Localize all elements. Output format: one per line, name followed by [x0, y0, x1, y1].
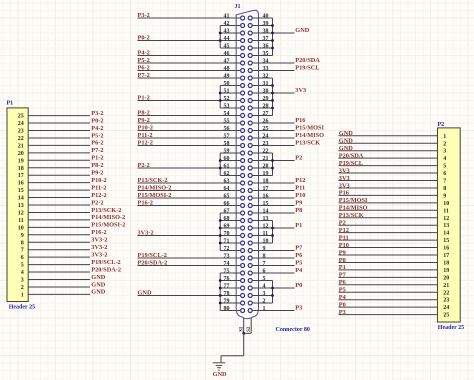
svg-text:15: 15 — [263, 201, 269, 207]
svg-text:GND: GND — [295, 27, 309, 34]
J1 pin 73 — [220, 257, 241, 259]
J1 pin 53 — [220, 107, 241, 109]
svg-text:11: 11 — [263, 231, 269, 237]
bus wire J1 pins 13-10 — [272, 221, 274, 244]
J1 pin 25 contact circle — [248, 129, 252, 133]
svg-text:6: 6 — [263, 268, 266, 274]
wire P1 pin 14 net P12-2 — [28, 197, 90, 199]
svg-text:P20/SDA-2: P20/SDA-2 — [91, 266, 121, 273]
svg-text:52: 52 — [224, 96, 230, 102]
J1 pin 43 contact circle — [241, 31, 245, 35]
wire P1 pin 12 net P13/SCK-2 — [28, 211, 90, 213]
J1 pin 74 — [220, 265, 241, 267]
junction at J1 pin 52 — [219, 99, 222, 102]
svg-text:P12: P12 — [339, 227, 349, 234]
J1 pin 78 contact circle — [241, 294, 245, 298]
wire P1 pin 1 net GND — [28, 293, 90, 295]
svg-text:J1: J1 — [235, 4, 241, 10]
svg-text:49: 49 — [224, 73, 230, 79]
junction at J1 pin 12 — [271, 227, 274, 230]
wire P2 pin 18 net P8 — [339, 261, 438, 263]
wire P1 pin 20 net P7-2 — [28, 152, 90, 154]
wire P1 pin 25 net P3-2 — [28, 115, 90, 117]
wire J1 pin 30 to net 3V3 — [273, 92, 295, 94]
svg-text:5: 5 — [263, 276, 266, 282]
svg-text:P2: P2 — [295, 155, 302, 162]
svg-text:P9-2: P9-2 — [91, 170, 103, 177]
svg-text:GND: GND — [339, 130, 353, 137]
wire J1 pin 34 to net P20/SDA — [273, 62, 295, 64]
J1 pin 47 — [220, 62, 241, 64]
svg-text:5: 5 — [443, 164, 446, 170]
wire P2 pin 24 net P0 — [339, 306, 438, 308]
svg-text:P15/MOSI-2: P15/MOSI-2 — [138, 192, 172, 199]
bus wire J1 pins 42-45 — [219, 26, 221, 49]
svg-text:3V3-2: 3V3-2 — [91, 251, 107, 258]
wire P2 pin 13 net P2 — [339, 224, 438, 226]
wire J1 pin 17 to net P11 — [273, 190, 295, 192]
J1 pin 49 — [220, 77, 241, 79]
J1 pin 19 — [252, 175, 272, 177]
J1 pin 53 contact circle — [241, 106, 245, 110]
svg-text:P14/MISO: P14/MISO — [295, 132, 324, 139]
svg-text:57: 57 — [224, 133, 230, 139]
svg-text:10: 10 — [18, 225, 24, 231]
J1 pin 66 — [220, 205, 241, 207]
junction at J1 pin 79 — [219, 302, 222, 305]
svg-text:3V3: 3V3 — [339, 175, 350, 182]
J1 pin 31 — [252, 85, 272, 87]
wire P1 pin 4 net P20/SDA-2 — [28, 271, 90, 273]
svg-text:GND: GND — [339, 138, 353, 145]
svg-text:3V3-2: 3V3-2 — [91, 244, 107, 251]
svg-text:67: 67 — [224, 208, 230, 214]
bus wire J1 pins 67-72 — [219, 213, 221, 251]
svg-text:42: 42 — [224, 21, 230, 27]
J1 pin 17 contact circle — [248, 189, 252, 193]
J1 pin 46 — [220, 55, 241, 57]
svg-text:P4-2: P4-2 — [91, 125, 103, 132]
svg-text:P13/SCK-2: P13/SCK-2 — [91, 207, 121, 214]
wire P1 pin 11 net P14/MISO-2 — [28, 219, 90, 221]
svg-text:76: 76 — [224, 276, 230, 282]
J1 pin 46 contact circle — [241, 54, 245, 58]
wire J1 pin 1 to net P3 — [273, 310, 295, 312]
wire P1 pin 8 net 3V3-2 — [28, 241, 90, 243]
svg-text:65: 65 — [224, 193, 230, 199]
svg-text:P4-2: P4-2 — [138, 50, 150, 57]
bus wire J1 pins 59-62 — [219, 153, 221, 176]
svg-text:18: 18 — [18, 166, 24, 172]
wire J1 pin 4 to net P0 — [273, 287, 295, 289]
svg-text:P5-2: P5-2 — [91, 132, 103, 139]
svg-text:P16: P16 — [339, 190, 349, 197]
J1 pin 80 contact circle — [241, 309, 245, 313]
svg-text:14: 14 — [263, 208, 269, 214]
svg-text:P11-2: P11-2 — [91, 184, 106, 191]
svg-text:P2: P2 — [438, 122, 445, 128]
svg-text:12: 12 — [443, 216, 449, 222]
svg-text:25: 25 — [18, 114, 24, 120]
J1 pin 38 — [252, 32, 272, 34]
svg-text:68: 68 — [224, 216, 230, 222]
wire P1 pin 21 net P6-2 — [28, 144, 90, 146]
wire P1 pin 9 net P16-2 — [28, 234, 90, 236]
svg-text:22: 22 — [443, 290, 449, 296]
wire J1 pin 7 to net P5 — [273, 265, 295, 267]
junction at J1 pin 29 — [271, 99, 274, 102]
J1 pin 62 contact circle — [241, 174, 245, 178]
svg-text:P8: P8 — [339, 257, 346, 264]
J1 pin 9 contact circle — [248, 249, 252, 253]
junction at J1 pin 21 — [271, 159, 274, 162]
svg-text:38: 38 — [263, 28, 269, 34]
svg-text:P19/SCL-2: P19/SCL-2 — [138, 252, 167, 259]
J1 pin 71 — [220, 242, 241, 244]
J1 pin 57 contact circle — [241, 136, 245, 140]
J1 pin 56 — [220, 130, 241, 132]
J1 pin 50 — [220, 85, 241, 87]
junction at J1 pin 30 — [271, 92, 274, 95]
J1 pin 27 — [252, 115, 272, 117]
svg-text:20: 20 — [18, 151, 24, 157]
junction at J1 pin 78 — [219, 294, 222, 297]
svg-text:P0-2: P0-2 — [91, 117, 103, 124]
svg-text:1: 1 — [21, 292, 24, 298]
svg-text:P8: P8 — [295, 207, 302, 214]
J1 pin 26 contact circle — [248, 121, 252, 125]
wire P1 pin 16 net P10-2 — [28, 182, 90, 184]
svg-text:P19/SCL: P19/SCL — [339, 160, 363, 167]
junction at J1 pin 39 — [271, 24, 274, 27]
svg-text:16: 16 — [443, 246, 449, 252]
J1 shield pin S1 — [243, 318, 245, 334]
svg-text:5: 5 — [21, 263, 24, 269]
svg-text:P1: P1 — [7, 100, 14, 106]
wire net 3V3-2 to J1 pin 70 — [138, 235, 221, 237]
svg-text:P20/SDA-2: P20/SDA-2 — [138, 260, 168, 267]
wire net P13/SCK-2 to J1 pin 63 — [138, 182, 221, 184]
wire P2 pin 25 net P3 — [339, 314, 438, 316]
svg-text:21: 21 — [263, 156, 269, 162]
wire P2 pin 21 net P6 — [339, 284, 438, 286]
wire net P2-2 to J1 pin 61 — [138, 167, 221, 169]
svg-text:P8-2: P8-2 — [138, 110, 150, 117]
svg-text:P7: P7 — [339, 272, 346, 279]
J1 pin 34 — [252, 62, 272, 64]
J1 pin 26 — [252, 122, 272, 124]
J1 pin 77 contact circle — [241, 286, 245, 290]
svg-text:8: 8 — [443, 186, 446, 192]
svg-text:P5: P5 — [295, 260, 302, 267]
svg-text:P11: P11 — [295, 185, 305, 192]
svg-text:P13/SCK: P13/SCK — [339, 212, 364, 219]
svg-text:10: 10 — [263, 238, 269, 244]
svg-text:60: 60 — [224, 156, 230, 162]
junction at J1 pin 51 — [219, 92, 222, 95]
svg-text:3V3-2: 3V3-2 — [91, 237, 107, 244]
svg-text:26: 26 — [263, 118, 269, 124]
J1 pin 60 — [220, 160, 241, 162]
svg-text:4: 4 — [21, 270, 24, 276]
J1 pin 33 — [252, 70, 272, 72]
wire J1 pin 24 to net P14/MISO — [273, 137, 295, 139]
wire P2 pin 17 net P9 — [339, 254, 438, 256]
svg-text:P4: P4 — [295, 267, 303, 274]
wire J1 pin 16 to net P10 — [273, 197, 295, 199]
J1 pin 7 — [252, 265, 272, 267]
svg-text:44: 44 — [224, 36, 230, 42]
J1 pin 48 — [220, 70, 241, 72]
svg-text:25: 25 — [263, 126, 269, 132]
svg-text:P5-2: P5-2 — [138, 57, 150, 64]
wire P2 pin 19 net P1 — [339, 269, 438, 271]
svg-text:P0-2: P0-2 — [138, 35, 150, 42]
svg-text:19: 19 — [443, 268, 449, 274]
wire J1 pin 9 to net P7 — [273, 250, 295, 252]
svg-text:2: 2 — [443, 141, 446, 147]
wire P2 pin 7 net 3V3 — [339, 180, 438, 182]
svg-text:17: 17 — [443, 253, 449, 259]
wire P2 pin 9 net P16 — [339, 194, 438, 196]
J1 pin 59 contact circle — [241, 151, 245, 155]
svg-text:9: 9 — [263, 246, 266, 252]
J1 pin 10 — [252, 242, 272, 244]
J1 pin 31 contact circle — [248, 84, 252, 88]
svg-text:54: 54 — [224, 111, 230, 117]
svg-text:31: 31 — [263, 81, 269, 87]
svg-text:64: 64 — [224, 186, 230, 192]
svg-text:Header 25: Header 25 — [438, 325, 464, 331]
svg-text:16: 16 — [263, 193, 269, 199]
J1 pin 70 contact circle — [241, 234, 245, 238]
svg-text:23: 23 — [263, 141, 269, 147]
svg-text:4: 4 — [443, 156, 446, 162]
junction at J1 pin 28 — [271, 107, 274, 110]
svg-text:11: 11 — [18, 218, 24, 224]
svg-text:20: 20 — [443, 275, 449, 281]
bus wire J1 pins 40-35 — [272, 18, 274, 56]
junction at J1 pin 36 — [271, 47, 274, 50]
J1 pin 36 — [252, 47, 272, 49]
J1 pin 18 contact circle — [248, 181, 252, 185]
wire P1 pin 10 net P15/MOSI-2 — [28, 226, 90, 228]
J1 pin 4 contact circle — [248, 286, 252, 290]
J1 pin 6 — [252, 272, 272, 274]
svg-text:11: 11 — [443, 208, 449, 214]
svg-text:35: 35 — [263, 51, 269, 57]
svg-text:GND: GND — [339, 145, 353, 152]
svg-text:22: 22 — [263, 148, 269, 154]
J1 pin 68 — [220, 220, 241, 222]
svg-text:27: 27 — [263, 111, 269, 117]
svg-text:8: 8 — [21, 240, 24, 246]
svg-text:P2-2: P2-2 — [91, 199, 103, 206]
J1 pin 75 — [220, 272, 241, 274]
wire net GND to J1 pin 78 — [138, 295, 221, 297]
J1 pin 42 contact circle — [241, 24, 245, 28]
svg-text:20: 20 — [263, 163, 269, 169]
svg-text:7: 7 — [263, 261, 266, 267]
wire J1 pin 14 to net P8 — [273, 212, 295, 214]
svg-text:P1: P1 — [295, 222, 302, 229]
bus wire J1 pins 22-19 — [272, 153, 274, 176]
J1 pin 66 contact circle — [241, 204, 245, 208]
svg-text:GND: GND — [91, 281, 105, 288]
wire S2 to S1 junction — [244, 332, 252, 334]
J1 pin 1 contact circle — [248, 309, 252, 313]
J1 pin 45 — [220, 47, 241, 49]
wire J1 pin 18 to net P12 — [273, 182, 295, 184]
svg-text:P14/MISO-2: P14/MISO-2 — [91, 214, 125, 221]
svg-text:73: 73 — [224, 253, 230, 259]
wire P2 pin 6 net 3V3 — [339, 172, 438, 174]
J1 pin 18 — [252, 182, 272, 184]
junction at J1 pin 3 — [271, 294, 274, 297]
J1 pin 10 contact circle — [248, 241, 252, 245]
J1 pin 35 contact circle — [248, 54, 252, 58]
svg-text:P10-2: P10-2 — [138, 125, 153, 132]
svg-text:P12: P12 — [295, 177, 305, 184]
J1 pin 32 contact circle — [248, 76, 252, 80]
svg-text:36: 36 — [263, 43, 269, 49]
svg-text:53: 53 — [224, 103, 230, 109]
wire P1 pin 22 net P5-2 — [28, 137, 90, 139]
svg-text:22: 22 — [18, 136, 24, 142]
wire net P1-2 to J1 pin 52 — [138, 100, 221, 102]
J1 pin 52 contact circle — [241, 99, 245, 103]
J1 pin 55 — [220, 122, 241, 124]
junction at J1 pin 11 — [271, 234, 274, 237]
svg-text:P0: P0 — [295, 282, 302, 289]
svg-text:P3: P3 — [339, 309, 346, 316]
svg-text:P3: P3 — [295, 305, 302, 312]
svg-text:1: 1 — [263, 306, 266, 312]
J1 pin 47 contact circle — [241, 61, 245, 65]
J1 pin 21 contact circle — [248, 159, 252, 163]
wire P2 pin 12 net P13/SCK — [339, 217, 438, 219]
ground symbol GND — [213, 363, 226, 370]
wire P2 pin 20 net P7 — [339, 276, 438, 278]
wire J1 pin 8 to net P6 — [273, 257, 295, 259]
wire net P16-2 to J1 pin 66 — [138, 205, 221, 207]
bus wire J1 pins 32-27 — [272, 78, 274, 116]
svg-text:3: 3 — [263, 291, 266, 297]
svg-text:GND: GND — [91, 289, 105, 296]
svg-text:3V3: 3V3 — [295, 87, 306, 94]
svg-text:P13/SCK-2: P13/SCK-2 — [138, 177, 168, 184]
wire net P6-2 to J1 pin 48 — [138, 70, 221, 72]
svg-text:P7: P7 — [295, 245, 302, 252]
svg-text:P13/SCK: P13/SCK — [295, 140, 320, 147]
svg-text:43: 43 — [224, 28, 230, 34]
svg-text:33: 33 — [263, 66, 269, 72]
J1 pin 72 contact circle — [241, 249, 245, 253]
J1 pin 16 — [252, 197, 272, 199]
junction at J1 pin 37 — [271, 39, 274, 42]
svg-text:3V3: 3V3 — [339, 182, 350, 189]
svg-text:74: 74 — [224, 261, 230, 267]
svg-text:Connector 80: Connector 80 — [276, 327, 310, 333]
J1 pin 41 — [220, 17, 241, 19]
svg-text:70: 70 — [224, 231, 230, 237]
wire P1 pin 13 net P2-2 — [28, 204, 90, 206]
J1 pin 73 contact circle — [241, 256, 245, 260]
svg-text:15: 15 — [18, 188, 24, 194]
wire P2 pin 3 net GND — [339, 150, 438, 152]
junction at J1 pin 71 — [219, 242, 222, 245]
J1 pin 20 — [252, 167, 272, 169]
wire P1 pin 19 net P1-2 — [28, 159, 90, 161]
J1 pin 5 — [252, 280, 272, 282]
junction at J1 pin 44 — [219, 39, 222, 42]
J1 pin 64 contact circle — [241, 189, 245, 193]
svg-text:30: 30 — [263, 88, 269, 94]
svg-text:21: 21 — [18, 143, 24, 149]
J1 pin 13 — [252, 220, 272, 222]
wire P1 pin 3 net GND — [28, 279, 90, 281]
svg-text:GND: GND — [138, 290, 152, 297]
wire S1 down to ground — [243, 333, 245, 356]
wire net P0-2 to J1 pin 44 — [138, 40, 221, 42]
junction at J1 pin 31 — [271, 84, 274, 87]
svg-text:9: 9 — [21, 233, 24, 239]
J1 pin 52 — [220, 100, 241, 102]
wire net P12-2 to J1 pin 58 — [138, 145, 221, 147]
J1 pin 61 contact circle — [241, 166, 245, 170]
J1 pin 12 — [252, 227, 272, 229]
junction at J1 pin 68 — [219, 219, 222, 222]
J1 pin 51 contact circle — [241, 91, 245, 95]
J1 pin 68 contact circle — [241, 219, 245, 223]
svg-text:48: 48 — [224, 66, 230, 72]
svg-text:P12-2: P12-2 — [138, 140, 153, 147]
junction at J1 pin 77 — [219, 287, 222, 290]
svg-text:GND: GND — [91, 274, 105, 281]
J1 pin 30 contact circle — [248, 91, 252, 95]
connector P2 body — [438, 128, 461, 322]
svg-text:P3-2: P3-2 — [138, 12, 150, 19]
svg-text:55: 55 — [224, 118, 230, 124]
J1 pin 44 contact circle — [241, 39, 245, 43]
svg-text:14: 14 — [18, 196, 24, 202]
wire net P9-2 to J1 pin 55 — [138, 122, 221, 124]
svg-text:79: 79 — [224, 298, 230, 304]
wire P1 pin 5 net P19/SCL-2 — [28, 264, 90, 266]
svg-text:66: 66 — [224, 201, 230, 207]
svg-text:13: 13 — [443, 223, 449, 229]
J1 pin 20 contact circle — [248, 166, 252, 170]
J1 pin 61 — [220, 167, 241, 169]
svg-text:14: 14 — [443, 231, 449, 237]
J1 pin 21 — [252, 160, 272, 162]
wire P2 pin 1 net GND — [339, 135, 438, 137]
svg-text:P8-2: P8-2 — [91, 162, 103, 169]
J1 pin 17 — [252, 190, 272, 192]
J1 pin 51 — [220, 92, 241, 94]
wire P2 pin 10 net P15/MOSI — [339, 202, 438, 204]
svg-text:P16-2: P16-2 — [138, 200, 153, 207]
svg-text:24: 24 — [18, 121, 24, 127]
svg-text:16: 16 — [18, 181, 24, 187]
wire net P7-2 to J1 pin 49 — [138, 77, 221, 79]
wire J1 pin 38 to net GND — [273, 32, 295, 34]
J1 pin 43 — [220, 32, 241, 34]
svg-text:2: 2 — [21, 285, 24, 291]
svg-text:GND: GND — [213, 371, 227, 378]
J1 pin 39 contact circle — [248, 24, 252, 28]
J1 pin 72 — [220, 250, 241, 252]
